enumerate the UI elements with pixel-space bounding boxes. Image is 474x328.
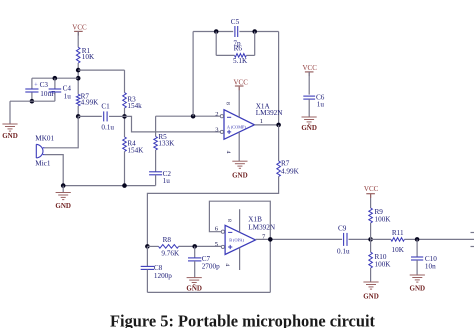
svg-text:100K: 100K <box>375 215 392 223</box>
wire C8 to bottom rail <box>146 270 148 293</box>
plus sign (pin 3) <box>227 130 231 134</box>
svg-text:GND: GND <box>55 202 71 210</box>
svg-text:C7: C7 <box>202 255 211 263</box>
wire feedback top rail left <box>193 31 233 33</box>
capacitor C6 <box>303 96 315 99</box>
edge mark upper <box>471 232 474 234</box>
ground (C3/C4) <box>2 124 18 140</box>
wire R10 to GND <box>370 268 372 282</box>
svg-text:2: 2 <box>215 111 218 118</box>
resistor R10 <box>369 252 373 268</box>
pin 3 circle <box>220 130 223 133</box>
wire C10 to GND <box>416 260 418 275</box>
wire R3 to R4 through node C <box>124 108 126 137</box>
svg-text:VCC: VCC <box>302 64 317 72</box>
svg-text:1u: 1u <box>317 101 325 109</box>
wire down to R6 right <box>254 32 256 56</box>
junction X1B output node <box>268 237 273 242</box>
wire stage-1 ground rail <box>63 185 155 187</box>
resistor R8 <box>159 245 179 249</box>
wire to R8 <box>147 245 158 247</box>
svg-text:LM392N: LM392N <box>248 223 276 231</box>
junction X1A output node <box>276 123 281 128</box>
junction C3 bottom <box>30 99 35 104</box>
wire R4 to ground rail <box>124 151 126 185</box>
junction R4 bottom <box>122 183 127 188</box>
wire R6 right lead <box>246 54 254 56</box>
svg-text:1u: 1u <box>163 177 171 185</box>
svg-text:GND: GND <box>301 124 317 132</box>
wire down to R6 left <box>215 32 217 56</box>
svg-text:B (OPA): B (OPA) <box>229 237 244 242</box>
wire R2 to node B <box>77 106 79 117</box>
resistor R11 <box>391 238 405 242</box>
svg-text:R6: R6 <box>234 45 243 53</box>
capacitor C3 <box>25 89 38 92</box>
svg-text:4.99K: 4.99K <box>81 99 100 107</box>
svg-text:R7: R7 <box>281 160 290 168</box>
svg-text:4: 4 <box>224 263 230 266</box>
junction R6 left <box>214 29 219 34</box>
junction C7 top <box>192 244 197 249</box>
wire -input down to R5 <box>155 116 157 136</box>
wire C2 to ground rail <box>155 175 157 186</box>
plus sign (pin 5) <box>228 245 232 249</box>
op-amp U1B (X1B LM392N) <box>225 225 255 254</box>
svg-text:C9: C9 <box>338 224 347 232</box>
resistor R7 <box>277 161 281 177</box>
svg-text:A (COMP): A (COMP) <box>227 124 247 129</box>
wire X1A output <box>254 124 278 126</box>
wire node down to C7 <box>194 246 196 257</box>
svg-text:C3: C3 <box>40 81 49 89</box>
wire node A to R3 top <box>78 69 124 71</box>
wire R6 left lead <box>216 54 234 56</box>
svg-text:10K: 10K <box>82 53 95 61</box>
svg-text:10uF: 10uF <box>40 90 55 98</box>
svg-text:133K: 133K <box>158 140 175 148</box>
svg-text:MK01: MK01 <box>35 135 54 143</box>
power VCC (over R1) <box>72 24 87 36</box>
wire feedback left vertical <box>192 32 194 117</box>
capacitor C1 <box>104 111 107 121</box>
wire -input (pin 2) line <box>156 115 221 117</box>
wire mic bottom to rail <box>45 155 64 186</box>
power VCC (C6) <box>302 64 317 76</box>
ground (C6) <box>301 117 317 132</box>
svg-text:0.1u: 0.1u <box>337 247 350 255</box>
svg-text:GND: GND <box>186 285 202 293</box>
wire mic top to node B <box>45 116 79 147</box>
junction R9/R10 divider node <box>368 237 373 242</box>
svg-text:X1B: X1B <box>248 216 262 224</box>
wire node to C3/C4 top rail <box>32 77 78 79</box>
wire node down to C10 <box>416 239 418 257</box>
pin 2 circle <box>220 115 223 118</box>
capacitor C4 <box>49 89 62 92</box>
svg-text:4: 4 <box>225 151 231 154</box>
svg-text:2700p: 2700p <box>202 263 220 271</box>
capacitor C8 <box>141 266 154 269</box>
wire R11 to output edge <box>404 238 474 240</box>
ground (R10) <box>363 282 379 300</box>
svg-text:4.99K: 4.99K <box>281 168 300 176</box>
svg-text:100K: 100K <box>375 261 392 269</box>
wire C3/C4 bottom rail <box>10 100 55 102</box>
svg-text:1u: 1u <box>64 92 72 100</box>
wire C9 to divider node <box>349 238 371 240</box>
wire R7 to stage-2 input <box>147 177 278 247</box>
resistor R7 (top) <box>76 94 80 106</box>
svg-text:1: 1 <box>260 118 263 125</box>
svg-text:10K: 10K <box>392 246 405 254</box>
svg-text:8: 8 <box>224 102 230 105</box>
capacitor C2 <box>149 172 162 175</box>
wire bottom rail to output <box>147 291 270 293</box>
svg-text:Figure 5: Portable microphone: Figure 5: Portable microphone circuit <box>110 312 375 328</box>
wire rail down to GND <box>9 101 11 124</box>
capacitor C10 <box>411 257 423 260</box>
microphone Mic1 <box>36 144 44 158</box>
wire C3 to bottom rail <box>31 92 33 101</box>
svg-text:GND: GND <box>363 292 379 300</box>
svg-text:VCC: VCC <box>72 24 87 32</box>
power VCC (R9) <box>364 185 379 198</box>
svg-text:R11: R11 <box>392 229 404 237</box>
wire VCC to R9 <box>370 194 372 208</box>
wire VCC to R1 <box>77 31 79 47</box>
wire node to R10 <box>370 239 372 252</box>
svg-text:5.1K: 5.1K <box>233 57 248 65</box>
resistor R1 <box>76 47 80 63</box>
svg-text:VCC: VCC <box>233 78 248 86</box>
wire R8 to pin 5 <box>179 245 222 247</box>
wire pin 8 stub (X1B) <box>239 209 241 232</box>
junction C4 top <box>53 76 58 81</box>
resistor R4 <box>123 137 127 151</box>
svg-text:GND: GND <box>410 284 426 292</box>
wire X1B output <box>256 238 343 240</box>
svg-text:C4: C4 <box>63 84 72 92</box>
ground (stage-1 rail) <box>55 193 71 211</box>
wire down to R3 <box>124 70 126 93</box>
resistor R9 <box>369 208 373 223</box>
ground (C10) <box>410 275 426 292</box>
node junction (to C3 C4 rail) <box>76 76 81 81</box>
minus sign (pin 6) <box>228 231 232 233</box>
node B junction (R2/C1/mic) <box>76 114 81 119</box>
wire output down to R7 <box>278 125 280 161</box>
pin 5 circle <box>221 245 224 248</box>
capacitor C7 <box>188 258 201 261</box>
pin 6 circle <box>221 230 224 233</box>
junction R6 right <box>252 29 257 34</box>
junction mic/ground rail <box>61 183 66 188</box>
svg-text:0.1u: 0.1u <box>101 123 114 131</box>
wire pin 4 to GND <box>238 132 240 161</box>
capacitor C5 <box>235 26 238 37</box>
wire R9 to node <box>370 223 372 240</box>
svg-text:8: 8 <box>226 219 232 222</box>
wire R1 to R2 (through node A) <box>77 63 79 94</box>
wire rail to GND <box>62 186 64 193</box>
svg-text:154k: 154k <box>127 102 142 110</box>
node C junction (R3/R4/C1/+in) <box>122 114 127 119</box>
wire VCC to C6 <box>308 72 310 95</box>
wire C4 to bottom rail <box>54 92 56 101</box>
wire X1B feedback loop <box>209 201 270 239</box>
svg-text:Mic1: Mic1 <box>35 159 51 167</box>
wire node B to C1 <box>78 115 102 117</box>
wire VCC to pin 8 <box>238 87 240 117</box>
resistor R5 <box>154 137 158 151</box>
ground (C7) <box>186 278 202 293</box>
wire feedback top rail right <box>239 31 278 33</box>
wire pin 4 stub (X1B) <box>239 248 241 270</box>
power VCC (X1A pin 8) <box>233 78 248 90</box>
wire C7 to GND <box>194 261 196 278</box>
resistor R6 <box>235 54 247 58</box>
wire R5 to C2 <box>155 150 157 172</box>
wire node to R11 <box>371 238 391 240</box>
wire feedback right vertical to output <box>278 32 280 125</box>
svg-text:+: + <box>34 83 38 89</box>
minus sign (pin 2) <box>227 116 231 118</box>
edge mark lower <box>471 246 474 248</box>
svg-text:10n: 10n <box>425 263 436 271</box>
wire bottom rail up to output node <box>269 239 271 292</box>
wire C6 to GND <box>308 99 310 117</box>
node A junction (R1 bottom / to R3) <box>76 68 81 73</box>
svg-text:GND: GND <box>232 171 248 179</box>
wire C1 to node C <box>109 115 125 117</box>
junction feedback / -input <box>191 114 196 119</box>
svg-text:R8: R8 <box>163 236 172 244</box>
svg-text:GND: GND <box>2 132 18 140</box>
wire down to C3 <box>31 78 33 88</box>
svg-text:1200p: 1200p <box>154 272 172 280</box>
svg-text:R10: R10 <box>375 253 387 261</box>
junction C8 / R8 input node <box>145 244 150 249</box>
svg-text:9.76K: 9.76K <box>161 249 180 257</box>
junction C10 node <box>415 237 420 242</box>
wire node C to +input (pin 3) <box>125 116 221 131</box>
op-amp U1A (X1A LM392N) <box>224 110 254 140</box>
wire node down to C8 <box>146 246 148 266</box>
capacitor C9 <box>344 233 347 246</box>
svg-text:C1: C1 <box>101 103 110 111</box>
ground (X1A pin 4) <box>232 161 248 179</box>
svg-text:154K: 154K <box>127 147 144 155</box>
svg-text:LM392N: LM392N <box>256 109 284 117</box>
svg-text:C5: C5 <box>231 18 240 26</box>
wire down to C4 <box>54 78 56 88</box>
resistor R3 <box>123 93 127 108</box>
svg-text:VCC: VCC <box>364 185 379 193</box>
